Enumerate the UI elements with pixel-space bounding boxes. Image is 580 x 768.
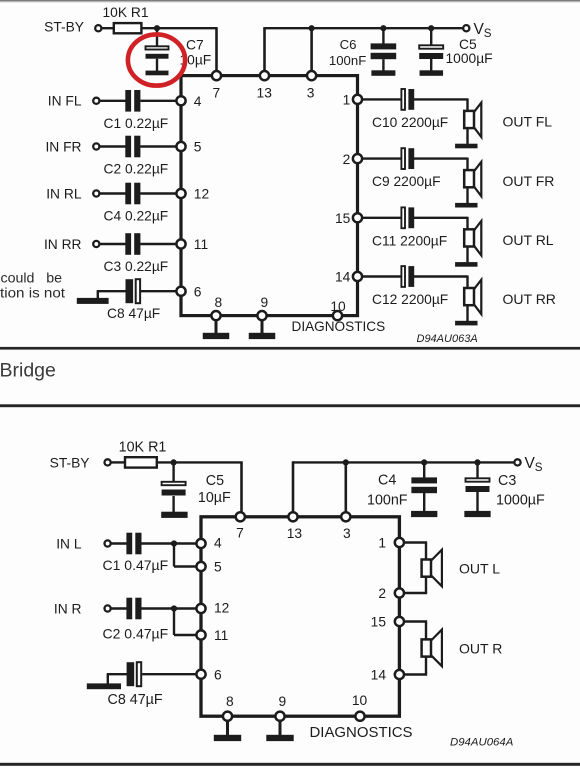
wire <box>107 674 109 684</box>
pin 1 (bridge) <box>395 538 404 547</box>
junction <box>309 25 315 31</box>
wire <box>414 157 468 159</box>
value label C6 <box>340 37 357 52</box>
capacitor C2 (top) <box>125 136 140 158</box>
ground <box>455 262 477 267</box>
pin number 7 <box>212 85 220 100</box>
value label C1 0.22µF <box>104 116 169 131</box>
wire <box>107 673 128 675</box>
wire <box>425 543 427 561</box>
wire C3 stem <box>476 462 478 479</box>
svg-text:5: 5 <box>214 560 222 575</box>
pin 3 (bridge) <box>341 512 350 521</box>
pin number 10 <box>352 693 368 708</box>
ground <box>420 70 444 76</box>
wire <box>423 491 425 512</box>
capacitor C4 (bridge) <box>411 477 437 493</box>
svg-text:OUT RR: OUT RR <box>503 291 556 307</box>
terminal Vs (bridge) <box>514 459 520 465</box>
wire <box>279 720 282 735</box>
pin 11 <box>176 239 185 248</box>
margin text fragment <box>1 271 63 287</box>
wire <box>466 247 468 263</box>
svg-text:IN FL: IN FL <box>48 94 82 109</box>
pin 5 <box>176 142 185 151</box>
svg-text:Bridge: Bridge <box>0 359 56 381</box>
wire <box>99 192 126 194</box>
capacitor C8 (top) <box>126 279 141 303</box>
value label 10µF <box>180 53 212 68</box>
wire C7 stem <box>156 28 158 46</box>
speaker OUT L <box>422 550 442 587</box>
pin number 12 <box>194 187 209 202</box>
node IN FL <box>48 94 82 109</box>
svg-text:OUT RL: OUT RL <box>503 232 554 248</box>
wire <box>111 607 127 609</box>
svg-text:10K R1: 10K R1 <box>102 5 148 20</box>
wire <box>466 187 468 203</box>
capacitor C5 (bridge) <box>162 482 186 496</box>
pin 13 <box>260 71 269 80</box>
wire <box>310 28 313 72</box>
svg-text:15: 15 <box>371 615 387 630</box>
ground <box>161 512 187 518</box>
wire <box>344 462 347 513</box>
capacitor C12 <box>401 266 414 287</box>
svg-text:10: 10 <box>330 299 346 314</box>
pin number 15 <box>371 615 387 630</box>
pin number 15 <box>335 211 351 226</box>
capacitor C3 (top) <box>125 233 140 255</box>
value label C5 <box>459 37 477 52</box>
svg-text:3: 3 <box>343 526 351 541</box>
svg-text:IN RR: IN RR <box>44 237 82 252</box>
svg-text:OUT FL: OUT FL <box>503 114 553 130</box>
wire <box>362 98 402 100</box>
value label C11 2200µF <box>372 233 447 248</box>
wire <box>404 592 427 594</box>
pin 14 <box>353 272 362 281</box>
value label C3 0.22µF <box>104 259 169 274</box>
speaker OUT FL <box>464 111 474 128</box>
wire <box>142 542 198 544</box>
op-amp U1 IC body (quad amplifier) <box>181 76 358 316</box>
wire <box>142 607 198 609</box>
svg-text:C5: C5 <box>206 473 224 489</box>
terminal IN R <box>105 605 111 611</box>
wire <box>466 158 468 172</box>
svg-text:C3 0.22µF: C3 0.22µF <box>104 259 169 274</box>
pin number 14 <box>371 668 387 683</box>
junction <box>171 540 177 546</box>
wire Vs net (bridge) <box>293 461 514 463</box>
svg-text:ST-BY: ST-BY <box>50 456 90 471</box>
value label C10 2200µF <box>372 115 448 130</box>
label OUT FL <box>503 114 553 130</box>
pin 6 <box>176 287 185 296</box>
value label 100nF (bridge) <box>367 493 408 509</box>
svg-text:ST-BY: ST-BY <box>44 19 84 34</box>
svg-text:C2 0.22µF: C2 0.22µF <box>104 162 169 177</box>
capacitor C1 (bridge) <box>126 533 141 555</box>
pin 15 (bridge) <box>395 617 404 626</box>
pin number 9 <box>278 694 286 709</box>
wire <box>414 275 468 277</box>
pin 15 <box>353 213 362 222</box>
terminal ST-BY (bridge) <box>105 459 111 465</box>
ground <box>87 683 121 689</box>
svg-text:12: 12 <box>194 187 209 202</box>
wire <box>111 461 126 463</box>
svg-text:3: 3 <box>307 85 315 100</box>
pin number 2 <box>343 152 351 167</box>
svg-text:8: 8 <box>214 295 222 310</box>
wire <box>173 609 175 636</box>
value label 10µF (bridge) <box>198 490 231 506</box>
svg-text:C8 47µF: C8 47µF <box>108 692 163 708</box>
wire <box>215 28 218 72</box>
pin 11 (bridge) <box>196 630 205 639</box>
terminal IN RR <box>93 241 99 247</box>
value label C8 47µF (bridge) <box>108 692 163 708</box>
pin number 4 <box>194 94 202 109</box>
wire <box>226 720 229 735</box>
wire <box>362 157 402 159</box>
pin 8 (bridge) <box>223 712 232 721</box>
pin 10 (bridge) <box>355 712 364 721</box>
node IN FR <box>45 139 81 154</box>
speaker cone <box>474 280 482 314</box>
capacitor C4 (top) <box>125 183 140 205</box>
svg-text:C5: C5 <box>459 37 477 52</box>
svg-text:1000µF: 1000µF <box>496 493 545 509</box>
label OUT RL <box>503 232 554 248</box>
ground <box>455 144 477 149</box>
value label C7 <box>186 37 204 52</box>
node IN L <box>56 536 82 551</box>
value label 1000µF <box>446 51 493 66</box>
wire <box>99 145 126 147</box>
pin number 11 <box>214 628 228 643</box>
op-amp U1 IC body (bridge amplifier) <box>201 517 399 716</box>
pin number 8 <box>226 694 234 709</box>
wire <box>141 27 217 29</box>
wire <box>466 305 468 321</box>
speaker cone <box>474 221 482 255</box>
wire <box>99 100 126 102</box>
label OUT L <box>459 560 500 576</box>
separator rule <box>0 347 580 350</box>
pin number 13 <box>257 85 273 100</box>
svg-text:C1 0.47µF: C1 0.47µF <box>103 557 169 573</box>
svg-text:C4 0.22µF: C4 0.22µF <box>104 209 169 224</box>
wire <box>173 544 175 567</box>
wire <box>174 565 197 567</box>
svg-text:13: 13 <box>257 85 273 100</box>
svg-text:C8 47µF: C8 47µF <box>107 306 160 321</box>
svg-text:10K R1: 10K R1 <box>119 440 167 456</box>
svg-text:7: 7 <box>212 85 220 100</box>
pin 8 <box>211 311 220 320</box>
value label C8 47µF <box>107 306 160 321</box>
wire <box>292 461 295 513</box>
svg-text:IN RL: IN RL <box>46 186 82 201</box>
svg-text:DIAGNOSTICS: DIAGNOSTICS <box>310 725 413 741</box>
junction <box>474 459 480 465</box>
ground <box>146 71 169 76</box>
pin 9 <box>257 311 266 320</box>
wire C6 stem <box>382 28 384 44</box>
svg-text:9: 9 <box>260 295 268 310</box>
wire <box>261 320 264 334</box>
top page edge <box>0 0 580 2</box>
label OUT FR <box>503 173 555 189</box>
resistor R1 <box>114 23 142 33</box>
junction <box>343 459 349 465</box>
speaker cone <box>474 103 482 137</box>
pin number 6 <box>194 284 202 299</box>
svg-text:14: 14 <box>371 668 387 683</box>
capacitor C1 (top) <box>125 90 140 112</box>
wire <box>466 128 468 144</box>
value label C2 0.22µF <box>104 162 169 177</box>
value label C9 2200µF <box>372 174 441 189</box>
terminal IN L <box>105 540 111 546</box>
wire <box>466 276 468 290</box>
svg-text:14: 14 <box>335 270 351 285</box>
node IN RR <box>44 237 82 252</box>
label DIAGNOSTICS <box>292 319 386 334</box>
svg-text:C9 2200µF: C9 2200µF <box>372 174 441 189</box>
pin 13 (bridge) <box>288 512 297 521</box>
svg-text:D94AU064A: D94AU064A <box>450 736 513 748</box>
junction <box>154 25 160 31</box>
terminal IN FR <box>93 143 99 149</box>
svg-text:S: S <box>535 461 543 474</box>
label DIAGNOSTICS (bridge) <box>310 725 413 741</box>
wire <box>99 243 126 245</box>
separator rule <box>0 763 580 766</box>
ground <box>266 735 293 741</box>
speaker OUT FR <box>464 170 474 187</box>
pin number 1 <box>343 93 351 108</box>
wire <box>215 320 218 334</box>
wire <box>430 59 432 71</box>
value label 10K R1 (bridge) <box>119 440 167 456</box>
capacitor C9 <box>401 148 414 169</box>
value label 100nF <box>329 53 366 68</box>
capacitor C7 <box>146 46 169 58</box>
svg-text:1: 1 <box>378 536 386 551</box>
pin number 3 <box>343 526 351 541</box>
value label C5 (bridge) <box>206 473 224 489</box>
pin 12 (bridge) <box>196 604 205 613</box>
value label 10K R1 <box>102 5 148 20</box>
pin 9 (bridge) <box>275 712 284 721</box>
pin number 6 <box>214 667 222 682</box>
pin number 4 <box>214 536 222 551</box>
ground <box>411 511 437 517</box>
ground <box>214 735 241 741</box>
capacitor C5 (top) <box>419 45 443 59</box>
wire <box>172 496 174 513</box>
wire <box>476 492 478 512</box>
svg-text:OUT L: OUT L <box>459 560 500 576</box>
label ST-BY <box>44 19 84 34</box>
speaker OUT R <box>422 630 442 667</box>
wire <box>466 98 468 112</box>
svg-text:C12 2200µF: C12 2200µF <box>372 292 448 307</box>
svg-text:C7: C7 <box>186 37 204 52</box>
node IN RL <box>46 186 82 201</box>
svg-text:C11 2200µF: C11 2200µF <box>372 233 447 248</box>
pin 4 (bridge) <box>196 539 205 548</box>
resistor R1 (bridge) <box>125 457 157 467</box>
svg-text:C4: C4 <box>378 472 396 488</box>
wire <box>425 576 427 593</box>
wire <box>140 192 177 194</box>
wire <box>466 217 468 231</box>
wire C4 stem <box>423 462 425 478</box>
pin number 1 <box>378 536 386 551</box>
svg-text:13: 13 <box>287 526 303 541</box>
svg-text:C1 0.22µF: C1 0.22µF <box>104 116 169 131</box>
pin 5 (bridge) <box>196 562 205 571</box>
svg-text:9: 9 <box>278 694 286 709</box>
svg-text:4: 4 <box>194 94 202 109</box>
pin number 5 <box>194 140 202 155</box>
wire <box>101 27 114 29</box>
wire <box>140 100 177 102</box>
wire <box>142 673 197 675</box>
pin 4 <box>176 96 185 105</box>
svg-text:1: 1 <box>343 93 351 108</box>
capacitor C2 (bridge) <box>126 598 141 620</box>
margin text fragment <box>0 286 65 302</box>
capacitor C11 <box>401 207 414 228</box>
separator rule <box>0 404 580 407</box>
pin 2 (bridge) <box>395 588 404 597</box>
svg-text:C6: C6 <box>340 37 357 52</box>
wire <box>362 275 402 277</box>
pin 3 <box>307 71 316 80</box>
node IN R <box>54 601 82 616</box>
wire <box>97 291 99 299</box>
pin 14 (bridge) <box>395 670 404 679</box>
svg-text:D94AU063A: D94AU063A <box>417 333 478 345</box>
speaker OUT RR <box>464 288 474 305</box>
wire <box>156 59 158 71</box>
pin number 14 <box>335 270 351 285</box>
ground <box>203 333 230 339</box>
svg-text:OUT R: OUT R <box>459 640 502 656</box>
wire <box>425 622 427 641</box>
junction <box>428 25 434 31</box>
pin 7 <box>212 71 221 80</box>
wire <box>140 145 177 147</box>
wire <box>404 541 427 543</box>
junction <box>380 25 386 31</box>
wire <box>404 673 427 675</box>
svg-text:C3: C3 <box>498 473 516 489</box>
svg-text:11: 11 <box>214 628 228 643</box>
wire <box>404 620 427 622</box>
value label 1000µF (bridge) <box>496 493 545 509</box>
svg-text:IN L: IN L <box>56 536 82 551</box>
wire <box>174 634 197 636</box>
pin number 11 <box>194 237 208 252</box>
svg-text:100nF: 100nF <box>329 53 366 68</box>
ground <box>77 298 109 304</box>
wire C5 stem <box>430 28 432 45</box>
value label C3 <box>498 473 516 489</box>
ground <box>455 203 477 208</box>
ground <box>249 333 276 339</box>
pin number 10 <box>330 299 346 314</box>
svg-text:IN R: IN R <box>54 601 82 616</box>
svg-text:6: 6 <box>214 667 222 682</box>
pin number 12 <box>214 601 229 616</box>
net label Vs <box>474 21 492 40</box>
wire <box>97 290 127 292</box>
wire <box>240 462 243 513</box>
terminal Vs <box>463 25 469 31</box>
svg-text:100nF: 100nF <box>367 493 408 509</box>
drawing number D94AU064A <box>450 736 513 748</box>
speaker OUT RL <box>464 229 474 246</box>
capacitor C10 <box>401 89 414 110</box>
label ST-BY (bridge) <box>50 456 90 471</box>
capacitor C8 (bridge) <box>127 662 142 686</box>
svg-text:could be: could be <box>1 271 63 287</box>
svg-text:7: 7 <box>236 525 244 540</box>
pin 7 (bridge) <box>236 512 245 521</box>
wire <box>414 98 468 100</box>
svg-text:DIAGNOSTICS: DIAGNOSTICS <box>292 319 386 334</box>
wire <box>140 243 177 245</box>
pin number 9 <box>260 295 268 310</box>
capacitor C3 (bridge) <box>466 478 490 492</box>
pin number 2 <box>378 586 386 601</box>
speaker cone <box>474 162 482 196</box>
svg-text:10: 10 <box>352 693 368 708</box>
svg-text:5: 5 <box>194 140 202 155</box>
svg-text:6: 6 <box>194 284 202 299</box>
pin number 8 <box>214 295 222 310</box>
svg-text:tion is not: tion is not <box>0 286 65 302</box>
svg-text:1000µF: 1000µF <box>446 51 493 66</box>
value label C1 0.47µF <box>103 557 169 573</box>
wire <box>111 542 127 544</box>
svg-text:2: 2 <box>343 152 351 167</box>
wire <box>425 656 427 675</box>
terminal IN FL <box>93 98 99 104</box>
net label Vs (bridge) <box>525 455 543 474</box>
terminal IN RL <box>93 190 99 196</box>
label OUT RR <box>503 291 556 307</box>
heading Bridge <box>0 359 56 381</box>
wire <box>141 290 177 292</box>
svg-text:C10 2200µF: C10 2200µF <box>372 115 448 130</box>
pin 12 <box>176 189 185 198</box>
svg-text:10µF: 10µF <box>198 490 231 506</box>
pin number 7 <box>236 525 244 540</box>
junction <box>171 605 177 611</box>
svg-text:OUT FR: OUT FR <box>503 173 555 189</box>
svg-text:12: 12 <box>214 601 229 616</box>
wire Vs net <box>265 27 464 29</box>
value label C12 2200µF <box>372 292 448 307</box>
